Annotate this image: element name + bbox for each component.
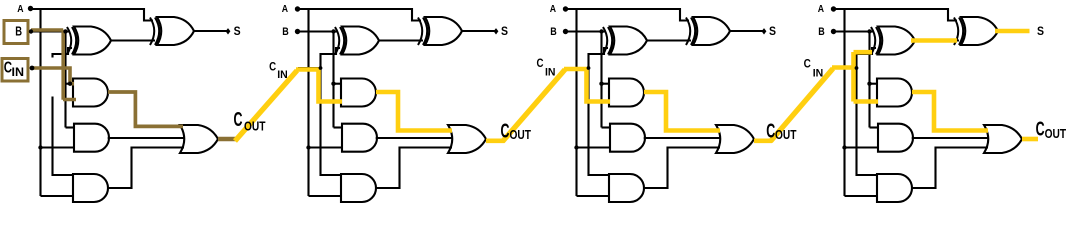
wire olive AND1 out to OR [108,92,183,126]
svg-text:OUT: OUT [510,128,532,142]
svg-text:C: C [537,58,544,70]
wire diagonal carry 1-2 [235,71,297,142]
wire olive Cout stub [218,137,236,142]
svg-text:IN: IN [545,67,556,79]
node B1 [29,29,33,33]
node A3 [563,6,568,11]
svg-text:B: B [282,26,289,38]
svg-text:A: A [818,3,825,15]
node Cin1 [30,66,35,71]
svg-text:C: C [269,62,276,74]
wire yellow Cout stub [486,139,504,144]
box input B [4,21,28,44]
svg-text:C: C [766,121,775,143]
svg-text:S: S [234,24,241,38]
svg-text:S: S [1037,24,1044,38]
svg-text:C: C [501,121,510,143]
svg-text:IN: IN [813,68,824,80]
node A2 [295,6,300,11]
wire yellow Cin to AND1 [564,69,610,102]
svg-text:OUT: OUT [1045,127,1067,141]
cover stray wire [51,58,54,97]
svg-text:S: S [769,24,776,38]
svg-text:B: B [550,26,557,38]
svg-text:OUT: OUT [775,128,797,142]
svg-text:B: B [818,26,825,38]
wire diagonal carry 3-4 [771,69,834,142]
svg-text:IN: IN [12,67,25,79]
node B2 [295,29,300,34]
wire yellow Cout stub [1022,137,1038,142]
svg-text:C: C [804,59,811,71]
svg-text:IN: IN [277,69,288,81]
node A4 [831,6,836,11]
wire yellow AND1 out to OR [912,92,988,131]
wire yellow S out [995,29,1030,34]
wire yellow Cin trunk [832,52,878,102]
box input Cin [2,59,28,82]
cover stage4 S line end [1030,29,1034,34]
node B4 [831,29,836,34]
junctions template [306,29,335,149]
wire yellow Cin to AND1 [296,70,342,102]
node A1 [28,6,33,11]
junctions stage1 [63,29,67,33]
wire diagonal carry 2-3 [503,70,566,142]
svg-text:B: B [15,24,22,39]
svg-text:A: A [282,3,289,15]
node B3 [563,29,568,34]
wire yellow XOR1 out [911,38,957,43]
svg-text:A: A [550,3,557,15]
node AND1 top b1 [68,82,72,86]
wire olive Cin to AND1 top [32,68,74,84]
wire yellow AND1 out to OR [376,92,452,131]
svg-text:C: C [1036,119,1045,141]
svg-text:OUT: OUT [244,119,266,133]
wire olive B to AND1 bottom [31,30,76,100]
wire yellow Cout stub [754,139,772,144]
svg-text:S: S [501,24,508,38]
wire yellow AND1 out to OR [644,92,720,131]
S diamonds [226,28,231,34]
svg-text:C: C [234,109,243,131]
svg-text:A: A [17,3,24,15]
